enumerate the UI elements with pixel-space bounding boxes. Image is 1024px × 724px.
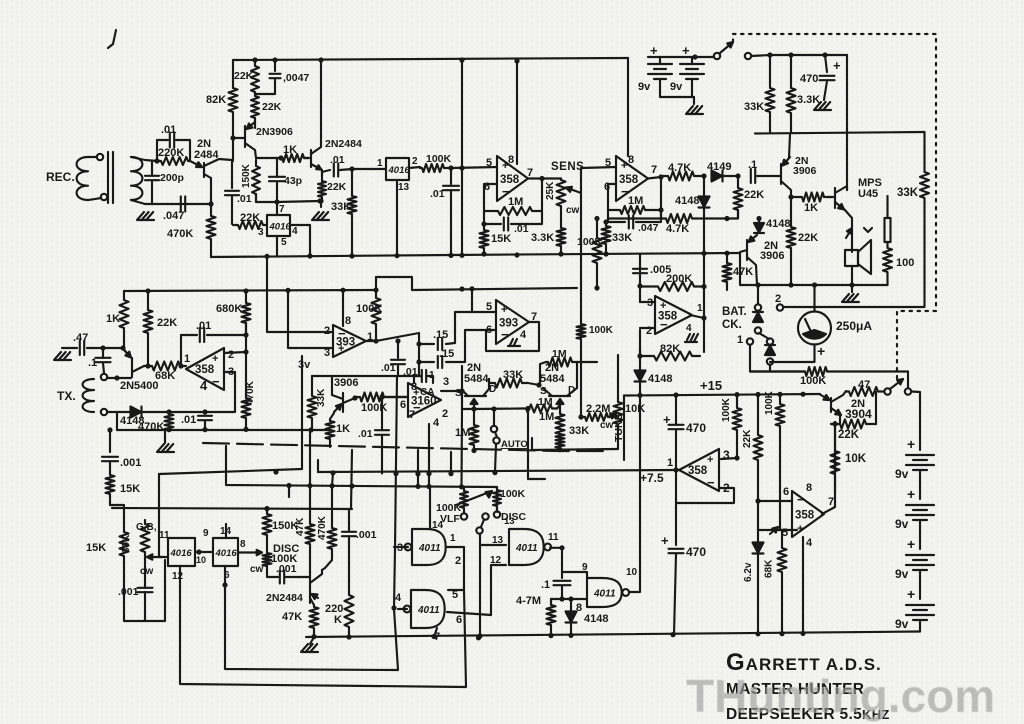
svg-text:100K: 100K <box>426 153 452 165</box>
node U2B out junction <box>658 174 663 179</box>
diode D7 4148 b <box>754 223 764 233</box>
wire 4148a bottom <box>703 208 705 253</box>
wire 100K meter to switch <box>907 372 909 389</box>
node L4a x276 <box>273 469 278 474</box>
speaker arrow tick <box>864 228 872 232</box>
node U8 out <box>701 315 706 320</box>
wire gb bottom rail <box>124 620 165 622</box>
wire .01 i col <box>381 397 383 430</box>
wire x267 col to 393 <box>267 256 333 332</box>
wire 200p bottom <box>151 181 153 205</box>
analog switch U2 4016 b <box>386 158 410 180</box>
wire batck to meter bottom <box>769 365 771 371</box>
wire audio VCC column <box>846 55 848 190</box>
wire U10 out <box>822 492 835 514</box>
resistor 100K b <box>372 290 381 338</box>
switch SW1a blade <box>720 42 733 53</box>
wire bottom long rail <box>306 632 920 638</box>
wire 393 out <box>366 340 376 342</box>
wire .1b bottom <box>103 363 104 373</box>
node 680K fb junction <box>243 332 248 337</box>
resistor 4.7M <box>547 599 556 636</box>
transistor Q10 collector <box>310 570 322 583</box>
wire .1 to Q4 base <box>757 175 781 177</box>
svg-text:3906: 3906 <box>793 165 817 177</box>
node U2A out junction <box>539 176 544 181</box>
svg-text:8: 8 <box>806 482 812 494</box>
wire .005 box right col <box>703 253 705 318</box>
switch SW1b blade <box>890 379 903 389</box>
capacitor .1 b <box>96 358 111 362</box>
wire bus L6 <box>112 508 352 509</box>
wire speaker bottom <box>851 266 853 285</box>
svg-text:13: 13 <box>504 516 515 527</box>
svg-text:358: 358 <box>658 311 678 323</box>
svg-text:10K: 10K <box>625 403 645 415</box>
node 4.7K b right junction <box>724 216 729 221</box>
node battery rail switch <box>692 54 697 59</box>
svg-text:25K: 25K <box>545 181 556 200</box>
node L2 x597 <box>594 285 599 290</box>
node pin3/x462 <box>459 388 464 393</box>
transistor Q3 2N2484 bar <box>310 150 312 167</box>
svg-text:33K: 33K <box>503 369 523 381</box>
wire batck blade <box>759 333 769 339</box>
transistor Q8 JFET 2N5484 a <box>462 379 489 409</box>
resistor 100K e <box>776 394 785 430</box>
svg-text:200K: 200K <box>666 273 692 285</box>
node power 3.3K top <box>788 52 793 57</box>
resistor 22K b <box>251 94 259 128</box>
wire bat1 bottom <box>660 79 694 97</box>
node L1 x704 <box>701 251 706 256</box>
capacitor .15 b <box>438 356 442 368</box>
wire col x472 <box>471 289 473 312</box>
capacitor .001 a <box>102 457 118 461</box>
wire 100K e col <box>779 430 781 530</box>
resistor 1K b <box>800 193 831 202</box>
wire gate b pin7 col <box>434 628 437 637</box>
wire 4148b col <box>758 219 760 224</box>
capacitor .01 i <box>375 430 389 435</box>
node 220K left junction <box>154 158 159 163</box>
wire x462 gap col <box>460 409 463 487</box>
wire emitter to .01 cap <box>322 170 330 172</box>
wire GB wiper line <box>159 556 168 558</box>
ground below 22K c <box>312 212 329 220</box>
svg-text:33K: 33K <box>569 425 589 437</box>
svg-text:.1: .1 <box>88 357 97 369</box>
wire transformer core line 1 <box>107 152 109 203</box>
wire 43p top <box>276 158 278 176</box>
resistor 470K c <box>165 412 174 430</box>
battery B3 9v <box>906 455 934 470</box>
node TX top junction <box>114 375 119 380</box>
wire 680K col mid <box>245 323 247 398</box>
svg-text:+: + <box>650 43 658 58</box>
svg-text:CA: CA <box>420 387 434 398</box>
node TX rail x205 <box>202 427 207 432</box>
wire L2 rail <box>124 290 376 291</box>
wire gate b in link <box>398 608 407 610</box>
wire U2A pin6 loop <box>484 184 497 224</box>
battery B2 9v <box>680 64 704 79</box>
node L5 x289 <box>286 483 291 488</box>
node L4b x418 <box>415 471 420 476</box>
svg-text:358: 358 <box>619 174 639 186</box>
potentiometer 25K SENS <box>557 179 566 209</box>
node L5 x418 <box>415 484 420 489</box>
wire .01 e left <box>181 334 197 336</box>
wire audio top rail <box>755 132 924 134</box>
wire battery link 2 <box>919 520 921 549</box>
node meter top rail <box>812 282 817 287</box>
terminal TX top <box>101 374 107 380</box>
svg-text:470K: 470K <box>245 380 256 405</box>
svg-text:+: + <box>907 536 915 552</box>
wire .01 d left <box>484 223 501 225</box>
battery B5 9v <box>906 555 934 570</box>
node pin13 rail <box>476 635 481 640</box>
svg-text:1K: 1K <box>804 202 818 214</box>
resistor 47K a <box>723 253 732 290</box>
svg-text:+: + <box>661 533 669 548</box>
resistor 470K input <box>207 204 216 257</box>
wire bat2 stub <box>691 57 693 64</box>
svg-text:.001: .001 <box>356 529 377 541</box>
wire 33K e right <box>528 383 539 385</box>
resistor 1K a <box>280 154 308 162</box>
svg-text:CK.: CK. <box>722 319 742 331</box>
svg-text:9: 9 <box>203 528 209 539</box>
node .01 f top <box>202 409 207 414</box>
svg-text:AUTO: AUTO <box>501 439 528 450</box>
wire .15 a left <box>419 343 434 345</box>
wire L2 jog <box>376 277 577 290</box>
wire 4016a pin5 down <box>276 236 278 256</box>
wire 22K i right up <box>875 392 877 424</box>
node 10K/22K <box>832 421 837 426</box>
node .01 g top <box>395 338 400 343</box>
wire auto blade <box>495 432 497 437</box>
svg-text:12: 12 <box>172 571 184 582</box>
svg-text:8: 8 <box>240 539 246 550</box>
svg-text:.01: .01 <box>181 414 196 426</box>
wire battery top rail <box>648 56 714 58</box>
wire 4148a column <box>703 176 705 196</box>
wire disc cap to Q10 base <box>285 576 310 578</box>
wire .1b top <box>102 348 104 358</box>
resistor 15K a <box>480 224 489 255</box>
node .15a left <box>416 341 421 346</box>
svg-text:3: 3 <box>324 347 330 359</box>
svg-text:470K: 470K <box>167 228 193 240</box>
resistor 1K d <box>326 419 335 447</box>
capacitor .01 h <box>422 370 426 382</box>
svg-text:7: 7 <box>828 496 834 508</box>
resistor 22K e <box>734 176 743 218</box>
wire bus L4b +7.5 <box>318 470 679 472</box>
node pin6 col <box>222 582 227 587</box>
node rail Q3 collector junction <box>318 57 323 62</box>
svg-text:5: 5 <box>452 589 458 601</box>
switch BATCK contact d <box>767 358 773 364</box>
wire .047 b left <box>608 210 625 222</box>
diode D5 4148 <box>635 371 646 382</box>
transistor Q1 2N2484 base bar <box>203 163 205 177</box>
wire .01 col c <box>450 168 452 184</box>
wire zener col top <box>757 530 759 542</box>
node 4148b top <box>756 216 761 221</box>
svg-text:393: 393 <box>499 318 518 330</box>
wire bus L4a <box>159 469 302 474</box>
gate U8C 4011 <box>587 578 629 607</box>
capacitor 43p <box>269 177 285 181</box>
resistor 100K c <box>355 393 408 402</box>
wire audio bottom rail <box>756 284 888 286</box>
wire 4016c-d link <box>195 551 213 553</box>
resistor 4.7K b <box>661 214 727 223</box>
wire x352 col <box>351 450 352 509</box>
svg-text:22K: 22K <box>157 317 177 329</box>
node L4b x429 <box>426 471 431 476</box>
transistor Q6 collector <box>132 366 148 372</box>
capacitor .047 <box>181 197 185 212</box>
svg-text:4: 4 <box>806 537 813 549</box>
svg-text:47K: 47K <box>282 611 302 623</box>
wire gate c out up <box>629 548 640 592</box>
pot GB wiper arrow <box>147 554 162 559</box>
svg-text:4016: 4016 <box>388 165 411 176</box>
terminal DISC <box>494 511 500 517</box>
svg-text:10: 10 <box>626 567 638 578</box>
svg-text:−: − <box>212 374 220 389</box>
transistor Q5 MPSU45 bar <box>834 188 836 208</box>
node 1K/43p junction <box>278 155 283 160</box>
svg-text:+7.5: +7.5 <box>640 471 664 485</box>
node 33K g bottom <box>557 447 562 452</box>
transistor Q10 2N2484 bar <box>309 577 311 603</box>
svg-text:13: 13 <box>398 182 410 193</box>
wire bus L5 <box>226 446 497 512</box>
svg-text:+15: +15 <box>700 378 722 393</box>
wire 43p bottom <box>276 182 278 202</box>
svg-text:100K: 100K <box>764 390 775 415</box>
resistor 1M f <box>556 408 565 450</box>
wire 82K op3 link <box>640 330 650 356</box>
terminal DISC pole <box>476 527 482 533</box>
wire top rail <box>233 58 628 60</box>
capacitor 470 power <box>820 76 835 80</box>
node rail .0047 junction <box>272 57 277 62</box>
wire 4.7K b to 100K mid <box>608 217 661 219</box>
resistor 47K c <box>310 605 319 637</box>
wire batck switch col <box>757 285 759 304</box>
svg-text:.1: .1 <box>748 159 757 171</box>
speaker LS1 <box>845 240 871 274</box>
potentiometer 100K DISC b <box>493 487 501 511</box>
svg-text:cw: cw <box>140 566 154 577</box>
svg-text:9v: 9v <box>638 81 651 93</box>
resistor 68K <box>148 362 186 371</box>
inductor RX coil left winding <box>77 157 88 200</box>
svg-text:4-7M: 4-7M <box>516 595 541 607</box>
wire 22K e bottom link <box>727 210 738 219</box>
diode batck b <box>765 345 775 355</box>
svg-text:470: 470 <box>686 545 706 559</box>
op-amp U10 358 <box>792 491 824 537</box>
op-amp U4B 393 <box>496 300 529 344</box>
svg-text:THunting.com: THunting.com <box>686 670 995 722</box>
node .1 cap top <box>100 345 105 350</box>
wire left col bottom <box>110 505 124 530</box>
wire emitter node down <box>321 170 323 181</box>
wire ground stub batteries <box>693 97 695 104</box>
node L2 x288 <box>285 288 290 293</box>
ground 470 cap <box>814 102 831 110</box>
node 15K top <box>481 221 486 226</box>
node 4.7M bottom <box>548 633 553 638</box>
resistor 15K b <box>106 473 115 505</box>
node 22K/ground junction <box>318 198 323 203</box>
wire x429 col <box>428 424 430 487</box>
capacitor .47 <box>80 341 84 355</box>
svg-text:BAT.: BAT. <box>722 306 747 318</box>
wire .001 e col <box>348 509 350 531</box>
svg-text:.01: .01 <box>430 188 445 200</box>
resistor 33K e <box>489 379 528 388</box>
node 1M c bottom L3 <box>471 448 476 453</box>
resistor 200K <box>640 282 704 291</box>
node 15K bottom rail <box>481 251 486 256</box>
svg-text:3.3K: 3.3K <box>531 232 554 244</box>
terminal DISC mid <box>482 513 488 519</box>
svg-text:8: 8 <box>345 315 351 327</box>
svg-text:3v: 3v <box>298 359 311 371</box>
wire L4b left hook <box>317 460 319 472</box>
wire x343 col <box>342 290 344 326</box>
wire left col mid <box>109 462 111 473</box>
node Q2 base junction <box>230 135 235 140</box>
wire 4016c pin14 col <box>225 524 227 538</box>
node x494 auto <box>491 406 496 411</box>
potentiometer 150K DISC upper <box>263 509 272 553</box>
wire x676 lower col <box>675 470 677 545</box>
svg-text:.15: .15 <box>439 348 454 360</box>
transistor Q1 base arrow <box>190 161 202 167</box>
wire transformer secondary top to 220K node <box>131 157 157 161</box>
svg-text:33K: 33K <box>744 101 764 113</box>
wire .15 b right <box>446 330 486 362</box>
wire tune bottom rail <box>532 449 618 450</box>
wire pin13 col <box>479 534 481 638</box>
transistor Q2 emitter arrow <box>247 122 256 129</box>
resistor 470K b <box>242 398 251 430</box>
jack J1 headphone <box>885 218 891 242</box>
node L4b x396 <box>393 471 398 476</box>
svg-text:3906: 3906 <box>334 377 358 389</box>
resistor 33K audio <box>920 132 929 306</box>
analog switch U6 4016 c <box>168 538 195 566</box>
transistor Q4 emitter up <box>789 134 790 158</box>
wire gate a out <box>447 547 464 590</box>
node L2 x472 <box>469 286 474 291</box>
node 33K b bottom rail <box>603 251 608 256</box>
capacitor .15 a <box>438 338 442 350</box>
svg-text:cw: cw <box>600 420 614 431</box>
terminal RX coil bottom <box>101 194 107 200</box>
wire junction to 22K e col <box>277 201 320 202</box>
wire power rail right <box>770 54 847 56</box>
resistor 33K a <box>348 169 357 256</box>
wire .01/220K box left <box>157 140 168 161</box>
wire TX top to base <box>107 377 131 379</box>
transistor Q5 emitter down <box>844 209 852 252</box>
wire Q2 base <box>233 137 245 139</box>
transistor Q12 emitter arrow <box>749 235 758 242</box>
node rail 22K junction <box>252 57 257 62</box>
node 4016 link <box>196 549 201 554</box>
svg-text:4011: 4011 <box>593 589 616 600</box>
node 3.3K bottom rail <box>558 251 563 256</box>
diode D2 4148 a <box>699 197 710 208</box>
svg-text:2: 2 <box>324 325 330 337</box>
transistor Q7 collector link <box>332 395 343 399</box>
node L4b x495 <box>492 470 497 475</box>
svg-text:.01: .01 <box>196 320 211 332</box>
resistor 47K b <box>306 486 315 553</box>
svg-text:22K: 22K <box>798 232 818 244</box>
svg-text:,0047: ,0047 <box>283 72 309 84</box>
battery B1 9v <box>648 64 672 79</box>
wire 4.7M line <box>551 598 573 600</box>
wire pin9 link <box>562 572 587 579</box>
wire .47 line <box>62 347 77 349</box>
svg-text:4016: 4016 <box>269 222 292 233</box>
wire 4148 e col top <box>639 348 641 370</box>
transistor Q4 collector <box>781 181 791 197</box>
svg-text:+: + <box>621 160 627 172</box>
wire 4.7K b left to 1M node <box>660 210 662 219</box>
wire battery link 3 <box>919 570 921 599</box>
resistor 1M a <box>484 207 542 215</box>
wire x418 col <box>417 450 419 486</box>
analog switch U7 4016 d <box>213 538 238 566</box>
svg-text:4016: 4016 <box>215 548 238 559</box>
wire x430 col pin14 <box>429 487 431 530</box>
svg-text:.47: .47 <box>73 332 88 344</box>
capacitor .01 c <box>443 186 459 190</box>
transistor Q3 base arrow <box>304 157 309 159</box>
resistor 22K g <box>144 291 153 366</box>
capacitor 470 c <box>669 549 684 553</box>
wire U5 pin3 out <box>441 390 462 392</box>
svg-text:REC.: REC. <box>46 170 75 184</box>
svg-text:6: 6 <box>783 486 789 498</box>
node +15 x730 <box>734 392 739 397</box>
wire meter 2-wire <box>783 306 925 308</box>
wire 4016a pin4 out <box>290 225 310 256</box>
svg-text:2N2484: 2N2484 <box>266 592 303 604</box>
svg-text:43p: 43p <box>284 175 302 187</box>
node L5 x461 <box>459 484 464 489</box>
ground speaker <box>842 294 859 302</box>
svg-text:2: 2 <box>412 156 418 167</box>
svg-text:TX.: TX. <box>57 389 76 403</box>
svg-text:5484: 5484 <box>540 373 565 385</box>
svg-text:+: + <box>212 353 218 365</box>
wire 1M e to gate <box>557 405 560 409</box>
